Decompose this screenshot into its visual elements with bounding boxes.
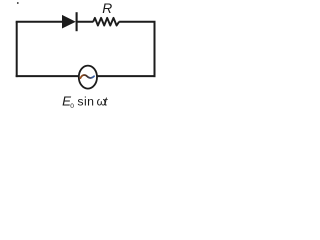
ac source sine tilde xyxy=(80,75,94,78)
wire right side xyxy=(154,22,156,77)
wire left side xyxy=(16,22,18,77)
svg-text:R: R xyxy=(102,1,112,16)
wire bottom-left segment xyxy=(16,75,79,77)
wire bottom-right segment xyxy=(98,75,156,77)
svg-text:sin: sin xyxy=(77,94,94,108)
ac source circle xyxy=(79,66,97,89)
resistor R zigzag xyxy=(93,18,119,26)
diode triangle (anode) xyxy=(62,15,76,29)
wire top-right segment xyxy=(119,21,155,23)
svg-text:0: 0 xyxy=(70,103,74,110)
diode cathode bar xyxy=(76,12,78,31)
svg-text:t: t xyxy=(104,94,108,108)
wire diode-to-resistor xyxy=(77,21,94,23)
wire top-left segment xyxy=(16,21,63,23)
